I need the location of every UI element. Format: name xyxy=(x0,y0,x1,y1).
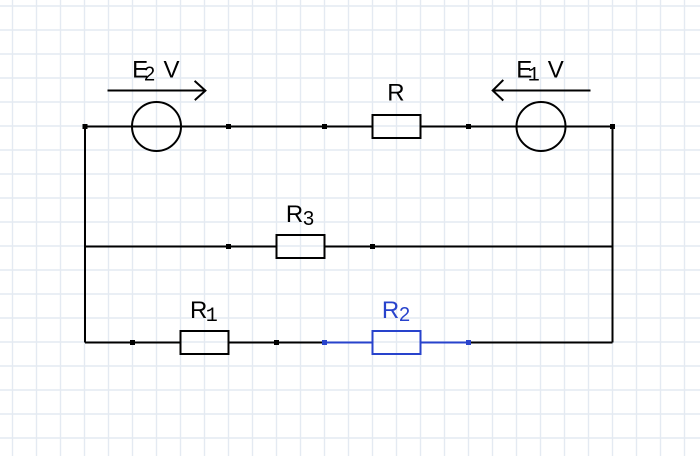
svg-text:R1: R1 xyxy=(190,297,218,328)
svg-text:R: R xyxy=(387,79,404,106)
svg-text:R3: R3 xyxy=(286,201,314,230)
svg-text:R2: R2 xyxy=(382,297,410,326)
